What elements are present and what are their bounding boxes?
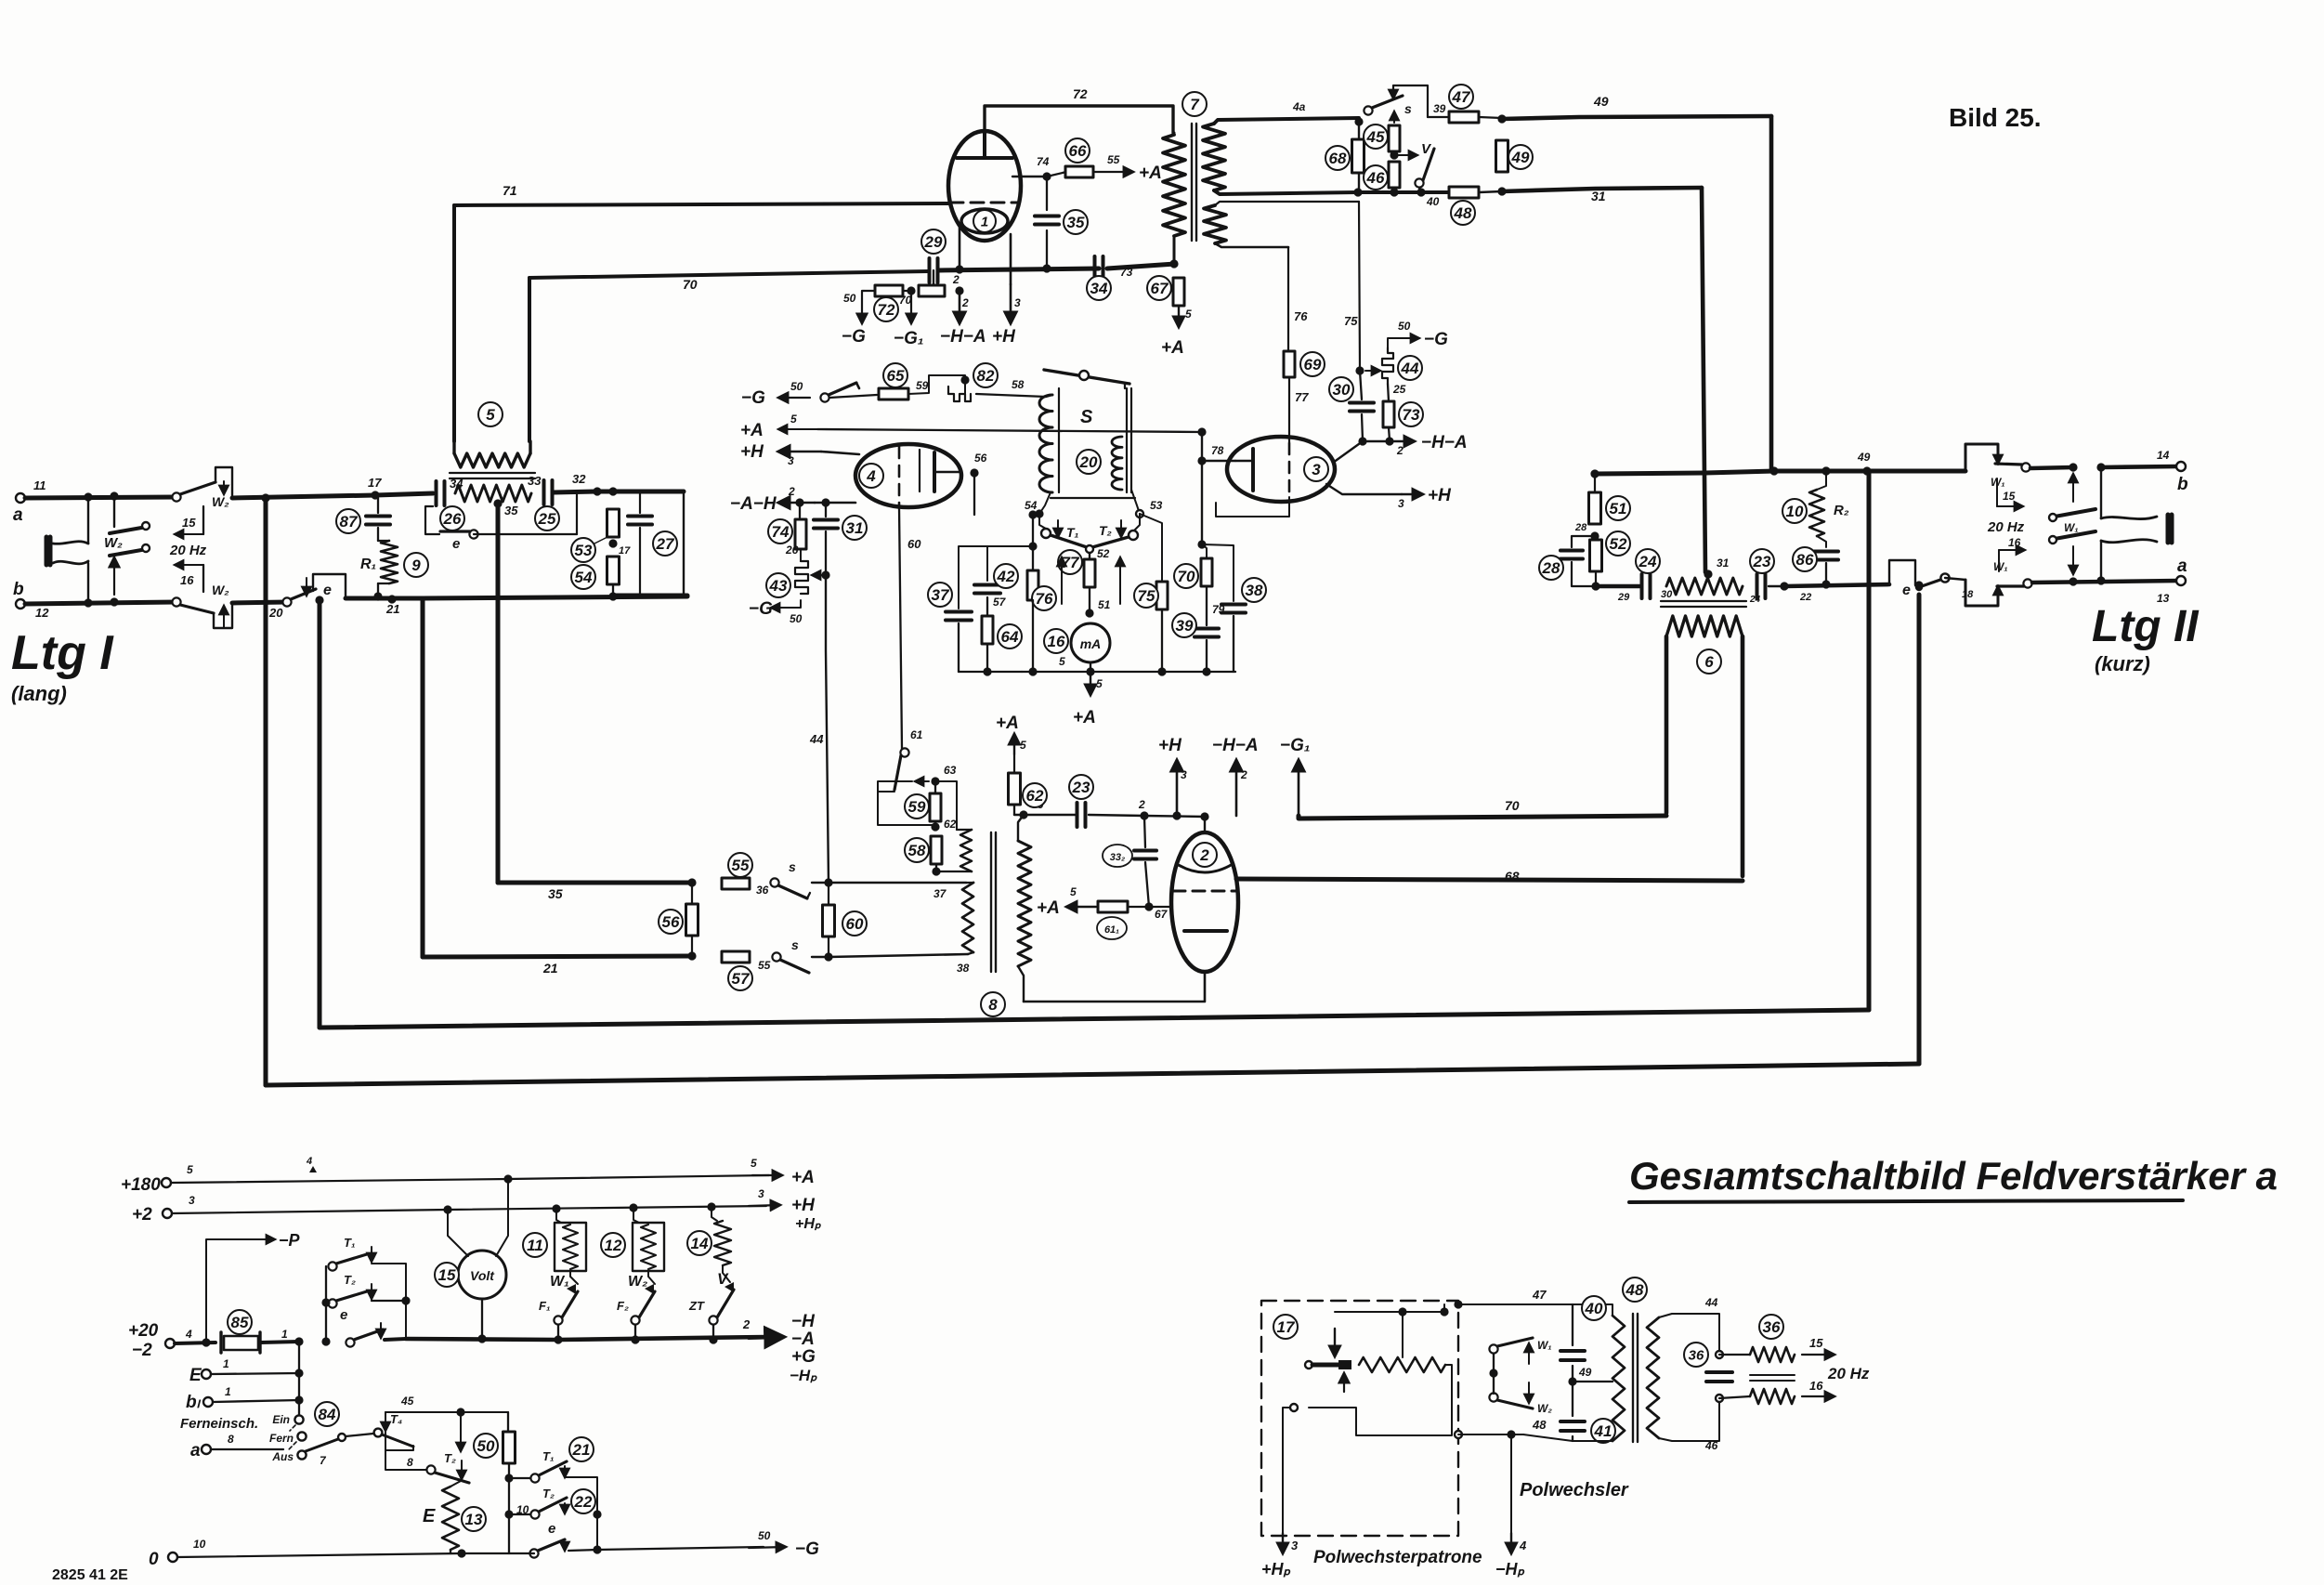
wire joining 4a to 40 node: [1358, 118, 1360, 192]
transformer 8 core: [991, 832, 996, 972]
svg-text:78: 78: [1211, 444, 1224, 457]
ref label 49: [1508, 145, 1533, 169]
wire 78 vertical top: [1201, 432, 1203, 461]
tube 1 envelope: [948, 131, 1021, 241]
capacitor 34: [437, 481, 445, 505]
resistor 70: [1201, 558, 1212, 586]
node 62: [931, 822, 939, 831]
svg-text:34: 34: [1090, 280, 1108, 297]
svg-text:43: 43: [769, 577, 788, 595]
svg-text:b: b: [13, 580, 24, 599]
svg-text:−Hₚ: −Hₚ: [790, 1367, 817, 1384]
capacitor 41: [1560, 1421, 1585, 1431]
resistor R2 (10): [1817, 471, 1826, 490]
resistor R1 (9): [381, 541, 398, 583]
capacitor 27: [639, 491, 641, 513]
ref label 39: [1172, 613, 1196, 637]
ref label 64: [998, 624, 1022, 648]
svg-text:Ferneinsch.: Ferneinsch.: [180, 1416, 258, 1432]
svg-text:32: 32: [572, 472, 586, 486]
svg-text:33₂: 33₂: [1110, 852, 1125, 863]
svg-text:T₂: T₂: [542, 1487, 555, 1500]
svg-text:36: 36: [1763, 1318, 1781, 1336]
terminal a (Ltg I): [16, 493, 25, 503]
svg-text:44: 44: [1401, 360, 1419, 377]
svg-text:16: 16: [1809, 1379, 1823, 1393]
svg-text:66: 66: [1069, 142, 1087, 160]
svg-text:b: b: [2177, 475, 2188, 494]
svg-text:87: 87: [340, 513, 359, 531]
ref label 45: [1364, 124, 1388, 149]
ref label 22: [571, 1489, 595, 1513]
wire 70 vertical: [528, 278, 531, 441]
ref label 36 left: [1684, 1343, 1708, 1367]
transformer 5 winding: [454, 453, 530, 467]
svg-text:3: 3: [189, 1194, 195, 1207]
svg-text:+A: +A: [1073, 708, 1096, 727]
svg-text:15: 15: [438, 1266, 456, 1284]
relay coil 14 (V): [712, 1207, 717, 1221]
transformer 8 upper-left coil: [960, 830, 972, 871]
switch T2 (power): [326, 1302, 333, 1303]
ref label 35: [1064, 210, 1088, 234]
svg-text:−P: −P: [279, 1231, 301, 1250]
svg-text:44: 44: [1704, 1296, 1718, 1309]
svg-text:50: 50: [1398, 320, 1411, 333]
arrow +H (3): [1010, 284, 1012, 323]
svg-text:Ltg I: Ltg I: [11, 626, 114, 680]
wire 54 to b bus: [612, 584, 614, 596]
svg-text:−G₁: −G₁: [1280, 736, 1311, 755]
svg-text:8: 8: [228, 1433, 234, 1446]
switch S (wire 36): [770, 878, 778, 886]
node 2: [1140, 811, 1148, 819]
ladder left rail: [325, 1266, 327, 1342]
svg-text:e: e: [548, 1521, 555, 1537]
arrow to W2 armature: [113, 557, 115, 595]
svg-text:4a: 4a: [1292, 100, 1306, 113]
wire 70 row: [1299, 816, 1666, 819]
svg-text:W₁: W₁: [2064, 521, 2079, 534]
svg-text:e: e: [340, 1307, 347, 1323]
svg-text:68: 68: [1329, 150, 1347, 167]
tube 2 envelope: [1171, 832, 1238, 972]
ref label 27: [653, 531, 677, 556]
transformer 5 core: [450, 473, 535, 478]
ref label 73: [1399, 402, 1423, 426]
node comb tap: [821, 570, 829, 579]
wire 50 down: [508, 1463, 510, 1553]
ref label 41: [1591, 1419, 1615, 1443]
node 74: [1042, 172, 1051, 180]
svg-text:50: 50: [843, 292, 856, 305]
svg-text:2: 2: [1240, 768, 1247, 781]
svg-text:3: 3: [1291, 1539, 1299, 1552]
primary bottom lead: [1173, 236, 1176, 264]
potentiometer (Polwechsler): [1305, 1361, 1312, 1369]
wire 49 vertical: [1769, 116, 1774, 470]
ref label 59: [905, 794, 929, 819]
svg-text:84: 84: [319, 1406, 336, 1423]
svg-text:67: 67: [1151, 280, 1169, 297]
wire 32: [554, 491, 597, 492]
capacitor 33b: [1144, 817, 1145, 847]
transformer core lines (36): [1750, 1375, 1795, 1381]
svg-text:25: 25: [538, 510, 556, 528]
ref label 38: [1242, 578, 1266, 602]
svg-text:+A: +A: [1037, 898, 1060, 918]
tap to coil mid: [1573, 1381, 1612, 1382]
svg-text:2: 2: [952, 273, 960, 286]
capacitor 87: [377, 495, 379, 513]
svg-text:2: 2: [742, 1317, 751, 1331]
resistor 73: [1383, 401, 1394, 427]
bus to terminal b: [2030, 467, 2073, 468]
wire 71 vertical: [452, 205, 456, 441]
arrow -G1: [1298, 760, 1300, 816]
outer loop right vertical: [1917, 595, 1922, 1064]
node 51: [1085, 609, 1093, 617]
svg-text:57: 57: [732, 970, 751, 988]
svg-text:bₗ: bₗ: [186, 1393, 202, 1412]
svg-text:4: 4: [185, 1328, 192, 1341]
svg-text:+H: +H: [1428, 486, 1452, 505]
arrow down from 45: [460, 1417, 462, 1451]
svg-text:17: 17: [1277, 1318, 1296, 1336]
arrow +A (5): [1066, 906, 1096, 908]
arrow 16: [1999, 549, 2025, 551]
ref label 17: [1273, 1315, 1298, 1339]
node 17: [371, 491, 379, 499]
svg-text:45: 45: [1366, 128, 1385, 146]
resistor 71: [919, 285, 945, 296]
tube 3 anode out: [1333, 441, 1363, 463]
wire 47 to coil top: [1523, 1304, 1612, 1316]
outer loop left vertical: [264, 498, 268, 1085]
ref label 3: [1304, 457, 1328, 481]
svg-text:R₁: R₁: [360, 557, 376, 572]
svg-text:52: 52: [1097, 547, 1110, 560]
svg-text:+A: +A: [791, 1168, 815, 1187]
svg-text:39: 39: [1433, 102, 1446, 115]
svg-text:70: 70: [1178, 568, 1195, 585]
transformer 7 core: [1192, 124, 1196, 241]
ref label 40: [1582, 1296, 1606, 1320]
cap rail top: [1572, 1304, 1573, 1345]
svg-text:30: 30: [1661, 589, 1673, 600]
wire 75 top lead: [1215, 202, 1359, 205]
svg-text:22: 22: [1799, 592, 1811, 603]
arrow -H-A (2): [959, 295, 961, 323]
resistor 54: [607, 557, 620, 584]
svg-text:+H: +H: [740, 442, 764, 462]
svg-text:−2: −2: [132, 1341, 152, 1360]
svg-text:15: 15: [2003, 490, 2016, 503]
20 Hz jump labels: [175, 533, 203, 535]
tube 2 inner arc: [1177, 864, 1233, 872]
svg-text:9: 9: [411, 557, 421, 574]
svg-text:6: 6: [1704, 653, 1714, 671]
bus to terminal a: [2032, 581, 2178, 583]
ref label 16: [1044, 629, 1068, 653]
svg-text:s: s: [791, 937, 799, 952]
terminal b (Ltg II): [2176, 462, 2186, 471]
svg-text:+20: +20: [128, 1321, 159, 1341]
b bus right end: [613, 594, 687, 598]
capacitor 31: [825, 503, 827, 517]
comb resistor 44: [1365, 370, 1380, 372]
transformer 20 right coil loops: [1112, 437, 1122, 490]
svg-text:20 Hz: 20 Hz: [169, 543, 207, 558]
right coil top lead: [1659, 1314, 1719, 1355]
node 28: [1590, 531, 1599, 540]
capacitor 27 plates: [628, 517, 652, 525]
svg-text:−G: −G: [842, 327, 866, 347]
svg-text:49: 49: [1593, 94, 1609, 109]
wire 21 cell right: [565, 1477, 597, 1550]
svg-text:5: 5: [1185, 308, 1192, 321]
ref label 68: [1325, 146, 1350, 170]
ref label 15: [435, 1263, 459, 1287]
svg-text:69: 69: [1304, 356, 1322, 373]
wire to fuse: [175, 1343, 215, 1343]
arrow 63: [915, 780, 929, 782]
wire 44 long vertical: [826, 575, 829, 883]
svg-text:7: 7: [1190, 96, 1200, 113]
svg-text:4: 4: [866, 467, 876, 485]
svg-text:65: 65: [887, 367, 905, 385]
svg-text:5: 5: [187, 1163, 193, 1176]
svg-text:17: 17: [619, 545, 631, 557]
capacitor 87 plates: [366, 517, 390, 525]
resistor 76: [1032, 546, 1034, 570]
wire 4a: [1214, 118, 1359, 124]
svg-text:+H: +H: [992, 327, 1016, 347]
ref label 31: [842, 516, 867, 540]
ref label 66: [1065, 138, 1090, 163]
svg-text:3: 3: [788, 454, 794, 467]
capacitor 40: [1560, 1351, 1585, 1360]
svg-text:13: 13: [465, 1511, 483, 1528]
svg-text:60: 60: [846, 915, 864, 933]
svg-text:30: 30: [1333, 381, 1351, 399]
arrow -H-A (2): [1235, 760, 1238, 816]
svg-text:70: 70: [899, 294, 912, 307]
b bus cont: [346, 596, 423, 601]
wire cap87 to R1: [377, 528, 379, 541]
arrow V: [1398, 154, 1417, 156]
tube 1 cathode leads: [960, 228, 1011, 284]
wire 49 top: [1502, 116, 1771, 119]
node 66: [1019, 810, 1027, 819]
ref label 9: [404, 553, 428, 577]
resistor 56: [686, 904, 699, 936]
transformer 48 right coil: [1647, 1317, 1659, 1438]
svg-text:11: 11: [33, 478, 46, 492]
node 56: [970, 468, 978, 477]
wire 59: [829, 395, 877, 398]
transformer 20 left coil: [1039, 395, 1052, 492]
wire 48 row: [1458, 1434, 1523, 1435]
drop to resistor 74: [799, 503, 801, 517]
switch F2: [631, 1316, 639, 1324]
capacitor 86: [1814, 552, 1838, 560]
wire 45: [385, 1411, 508, 1413]
bump over switch s: [1393, 85, 1428, 117]
svg-text:5: 5: [1096, 677, 1103, 690]
ref label 48: [1451, 201, 1475, 225]
svg-text:8: 8: [988, 996, 998, 1014]
svg-text:82: 82: [977, 367, 995, 385]
tube 4 grid dash: [898, 447, 901, 504]
capacitor 35: [1046, 177, 1048, 210]
svg-text:35: 35: [548, 886, 563, 901]
resistor 72: [864, 290, 911, 292]
svg-text:54: 54: [575, 569, 593, 586]
svg-text:12: 12: [605, 1237, 622, 1254]
ref label 54: [571, 565, 595, 589]
svg-text:5: 5: [751, 1157, 757, 1170]
svg-text:29: 29: [924, 233, 943, 251]
relay contact W1 (Ltg II): [2055, 509, 2096, 539]
title underline: [1629, 1200, 2183, 1202]
svg-text:31: 31: [1591, 189, 1606, 203]
capacitor 23: [1077, 803, 1086, 827]
tube 3 cathode bar: [1251, 449, 1255, 491]
svg-text:−H−A: −H−A: [1421, 433, 1468, 452]
svg-text:3: 3: [1014, 296, 1021, 309]
wire 35 vertical (tap): [496, 504, 501, 883]
svg-text:49: 49: [1857, 451, 1871, 464]
arrow -G: [861, 299, 863, 323]
svg-text:W₁: W₁: [550, 1274, 569, 1290]
tube 4 envelope: [855, 444, 961, 507]
svg-text:39: 39: [1176, 617, 1194, 635]
bump W1 upper: [1965, 444, 1998, 471]
capacitor 28 plates: [1560, 551, 1583, 559]
key T2: [1129, 531, 1138, 540]
switch s (top right): [1364, 106, 1372, 114]
svg-text:63: 63: [944, 764, 957, 777]
svg-text:46: 46: [1704, 1439, 1718, 1452]
ref label 76: [1032, 586, 1056, 610]
wire 66: [1024, 814, 1076, 816]
wire top inside box: [1335, 1304, 1444, 1312]
svg-text:86: 86: [1796, 551, 1814, 569]
wire to cap 37: [959, 546, 987, 609]
svg-text:+Hₚ: +Hₚ: [795, 1216, 822, 1232]
+2 rail: [172, 1206, 766, 1213]
bump wire upper: [215, 467, 232, 498]
0 rail right: [568, 1547, 764, 1551]
tube 2 grid dashes: [1173, 890, 1236, 893]
switch 84 Ein/Fern/Aus: [294, 1415, 303, 1423]
a bus to node 17: [232, 495, 375, 498]
svg-text:72: 72: [878, 301, 895, 319]
resistor 36 lower: [1719, 1396, 1750, 1398]
svg-text:24: 24: [1749, 595, 1761, 605]
inner loop bottom wire: [320, 1010, 1869, 1028]
svg-text:16: 16: [1048, 633, 1065, 650]
svg-text:54: 54: [1025, 499, 1038, 512]
tube 2 anode: [1184, 929, 1227, 933]
resistor 77: [1084, 559, 1095, 587]
ref label 23: [1750, 549, 1774, 573]
svg-text:57: 57: [993, 596, 1007, 609]
capacitor 29: [930, 258, 938, 282]
wire +H over tube 4: [821, 452, 859, 454]
wire to cap 38: [1202, 544, 1234, 601]
transformer 6 core: [1661, 601, 1746, 607]
wire to -G 50: [782, 600, 801, 608]
wire 35 row: [498, 881, 692, 885]
svg-text:25: 25: [1392, 383, 1406, 396]
wire up to 45: [385, 1412, 413, 1450]
relay coil 11 (W1): [556, 1209, 561, 1223]
capacitor 33: [544, 480, 553, 504]
ref label 37: [928, 583, 952, 607]
svg-text:e: e: [323, 583, 332, 598]
tube 2 number: [1193, 843, 1217, 867]
svg-text:5: 5: [1020, 739, 1026, 752]
pot top tap: [1402, 1312, 1404, 1357]
right coil bottom lead: [1659, 1398, 1719, 1441]
svg-text:76: 76: [1294, 309, 1308, 323]
svg-text:47: 47: [1452, 88, 1471, 106]
svg-text:51: 51: [1610, 500, 1627, 517]
tube 2 bottom return: [1024, 972, 1205, 1002]
svg-text:1: 1: [281, 1328, 288, 1341]
drop to resistor row: [933, 270, 934, 291]
svg-text:50: 50: [790, 380, 803, 393]
node 47 corner: [1454, 1300, 1462, 1308]
svg-text:68: 68: [1505, 869, 1520, 884]
wire 53 to resistor 75: [1140, 514, 1162, 582]
svg-text:E: E: [189, 1366, 202, 1385]
svg-text:−G: −G: [795, 1539, 819, 1559]
cap rail mid: [1572, 1366, 1573, 1416]
svg-text:23: 23: [1072, 779, 1090, 796]
svg-text:58: 58: [908, 842, 926, 859]
svg-text:+Hₚ: +Hₚ: [1261, 1560, 1291, 1578]
resistor 46: [1389, 162, 1400, 188]
wire -A-H to tube 4: [815, 502, 855, 504]
svg-text:40: 40: [1426, 195, 1440, 208]
svg-text:20: 20: [268, 606, 283, 620]
tube 3 cathode return: [1216, 497, 1289, 517]
switch T4: [374, 1429, 383, 1437]
resistor 58: [931, 836, 942, 864]
relay contact W2 (Ltg I): [110, 527, 147, 556]
switch V: [1415, 178, 1423, 187]
vertical junction 1: [298, 1342, 300, 1420]
comb resistor 82: [948, 386, 971, 401]
switch (row -G): [820, 393, 829, 401]
secondary lower lead: [1214, 190, 1358, 194]
Ltg II upper bus: [1595, 471, 1965, 474]
node 54 branch: [1028, 510, 1037, 518]
ref label 44: [1398, 356, 1422, 380]
resistor 68: [1352, 139, 1364, 173]
selector box 59/58: [878, 792, 935, 825]
transformer 7 secondary upper: [1203, 124, 1225, 190]
svg-text:55: 55: [732, 857, 750, 874]
Polwechsler dashed box (17): [1261, 1301, 1458, 1536]
svg-text:+A: +A: [1139, 164, 1162, 183]
svg-text:2: 2: [1138, 798, 1145, 811]
arrow -H-A (2): [1393, 440, 1415, 442]
capacitor 23b: [1757, 574, 1766, 598]
